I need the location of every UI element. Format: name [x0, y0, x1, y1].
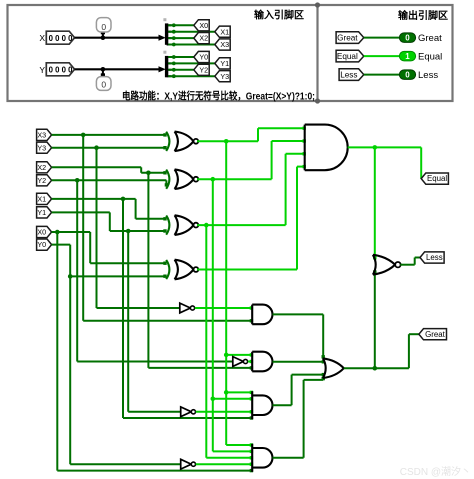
svg-text:电路功能：X,Y进行无符号比较，Great=(X>Y)?1:: 电路功能：X,Y进行无符号比较，Great=(X>Y)?1:0;: [122, 90, 315, 103]
node X probe tap: [101, 35, 106, 40]
wire X1 split: [168, 31, 215, 33]
node Y0 junction: [68, 274, 73, 279]
wire Y1 split: [168, 62, 215, 64]
node Y2 junction: [75, 178, 80, 183]
splitter Y: [159, 66, 166, 72]
tunnel Y1: [215, 58, 230, 69]
node Y3 junction: [94, 145, 99, 150]
not gate N1 Y3: [180, 303, 191, 313]
node Equal junction: [373, 145, 378, 150]
wire Y2 split: [168, 69, 194, 71]
node E3 junction A2: [224, 353, 229, 358]
wire net X3: [52, 134, 166, 136]
wire net Great: [344, 367, 409, 369]
svg-text:Y2: Y2: [37, 176, 46, 185]
wire X3 split: [168, 44, 215, 46]
tunnel X1: [215, 26, 230, 37]
svg-text:Great: Great: [425, 330, 446, 339]
wire net Y1: [52, 211, 110, 213]
svg-text:X2: X2: [37, 163, 46, 172]
output pin Equal: [399, 51, 415, 61]
probe Y: [102, 69, 104, 75]
svg-text:X0: X0: [37, 228, 46, 237]
svg-text:Great: Great: [337, 34, 358, 43]
wire net Y2: [52, 179, 167, 181]
tunnel Y2 main: [37, 175, 52, 186]
input pin Y: [46, 63, 74, 76]
wire Great to pin: [364, 37, 400, 39]
frame input pin area: [8, 5, 453, 101]
node E3 junction top: [224, 139, 229, 144]
wire A2 out: [273, 361, 324, 363]
svg-text:X: X: [39, 33, 45, 43]
svg-text:输入引脚区: 输入引脚区: [254, 9, 304, 22]
xnor gate U4 X0Y0: [166, 260, 169, 279]
xnor gate U2 X2Y2: [166, 170, 169, 189]
svg-text:0: 0: [101, 79, 106, 89]
wire Equal to pin: [364, 55, 400, 57]
and gate A2: [252, 352, 272, 372]
svg-text:0 0 0 0: 0 0 0 0: [49, 65, 74, 74]
and gate A3: [252, 391, 272, 419]
svg-text:Equal: Equal: [427, 174, 447, 183]
and gate A1: [252, 305, 272, 325]
and gate A4: [252, 444, 272, 472]
wire Y3 split: [168, 75, 215, 77]
svg-text:Equal: Equal: [418, 52, 442, 63]
svg-text:输出引脚区: 输出引脚区: [398, 9, 448, 22]
svg-text:X3: X3: [220, 40, 229, 49]
node X3 junction: [81, 133, 86, 138]
svg-text:Y0: Y0: [199, 53, 208, 62]
node X1 junction: [121, 197, 126, 202]
node Y probe tap: [101, 67, 106, 72]
not gate N3 Y1: [181, 407, 192, 417]
tunnel Less main: [420, 252, 444, 263]
svg-text:Y1: Y1: [37, 208, 46, 217]
tunnel X0 main: [37, 226, 52, 237]
node X0 junction: [55, 230, 60, 235]
xnor gate U3 X1Y1: [166, 216, 169, 235]
frame divider: [316, 5, 318, 101]
svg-text:CSDN @潮汐丶: CSDN @潮汐丶: [400, 465, 471, 478]
node Great junction: [373, 366, 378, 371]
wire X bus: [75, 37, 163, 39]
tunnel X3: [215, 39, 230, 50]
svg-text:Less: Less: [426, 253, 443, 262]
or gate O1 Great: [323, 358, 326, 378]
wire net E1: [197, 224, 286, 226]
tunnel Y3: [215, 71, 230, 82]
output pin Less: [399, 70, 415, 80]
node E1 junction: [204, 223, 209, 228]
wire Less to pin: [364, 74, 400, 76]
nor gate N5 Less: [373, 255, 376, 275]
svg-text:Less: Less: [418, 70, 438, 81]
splitter X: [159, 35, 166, 41]
tunnel Great source: [336, 32, 364, 44]
svg-text:Equal: Equal: [337, 52, 358, 61]
svg-text:X1: X1: [37, 195, 46, 204]
wire net Y3: [52, 147, 166, 149]
svg-text:Y2: Y2: [199, 65, 208, 74]
svg-text:X1: X1: [220, 27, 229, 36]
svg-text:Less: Less: [340, 71, 357, 80]
tunnel Y2: [194, 64, 209, 75]
svg-text:Y0: Y0: [37, 240, 46, 249]
svg-text:0 0 0 0: 0 0 0 0: [49, 34, 74, 43]
node X2 junction: [146, 171, 151, 176]
wire net X0: [52, 231, 91, 233]
tunnel Y1 main: [37, 207, 52, 218]
svg-text:Y: Y: [39, 65, 45, 75]
wire X2 split: [168, 37, 194, 39]
wire A3 out: [273, 404, 292, 406]
tunnel X2: [194, 33, 209, 44]
node E2 junction top: [211, 177, 216, 182]
wire Y0 split: [168, 56, 194, 58]
svg-text:Y1: Y1: [220, 59, 229, 68]
svg-text:Y3: Y3: [37, 143, 46, 152]
tunnel Y3 main: [37, 142, 52, 153]
svg-text:Y3: Y3: [220, 72, 229, 81]
tunnel X3 main: [37, 129, 52, 140]
svg-text:X2: X2: [199, 34, 208, 43]
tunnel Less source: [339, 69, 364, 81]
wire A4 out: [273, 457, 304, 459]
wire net E0: [197, 269, 297, 271]
wire X0 split: [168, 24, 194, 26]
probe X: [102, 32, 104, 38]
svg-text:X0: X0: [199, 21, 208, 30]
wire net X2: [52, 166, 142, 168]
wire Y bus: [75, 68, 163, 70]
node Y1 junction: [126, 229, 131, 234]
svg-text:X3: X3: [37, 131, 46, 140]
node E3 junction A3: [224, 390, 229, 395]
input pin X: [46, 31, 74, 44]
tunnel X2 main: [37, 162, 52, 173]
svg-text:0: 0: [101, 22, 106, 32]
svg-text:0: 0: [405, 71, 410, 80]
tunnel Equal source: [336, 50, 364, 62]
wire net X1: [52, 198, 136, 200]
tunnel X0: [194, 20, 209, 31]
wire net Less: [400, 264, 415, 266]
wire net Equal: [348, 146, 422, 148]
not gate N4 Y0: [181, 459, 192, 469]
wire net Y0: [52, 244, 71, 246]
tunnel X1 main: [37, 193, 52, 204]
tunnel Great main: [419, 329, 447, 340]
wire net E3: [197, 140, 258, 142]
wire A1 out: [273, 313, 324, 315]
svg-text:Great: Great: [418, 33, 442, 44]
node E2 junction A3: [211, 397, 216, 402]
xnor gate U1 X3Y3: [166, 132, 169, 151]
wire net E2: [197, 178, 272, 180]
and gate U5 Equal: [305, 125, 348, 171]
svg-text:0: 0: [405, 34, 410, 43]
tunnel Equal main: [421, 173, 448, 184]
svg-text:1: 1: [405, 52, 410, 61]
tunnel Y0: [194, 51, 209, 62]
tunnel Y0 main: [37, 239, 52, 250]
not gate N2 Y2: [233, 357, 244, 367]
output pin Great: [399, 33, 415, 43]
